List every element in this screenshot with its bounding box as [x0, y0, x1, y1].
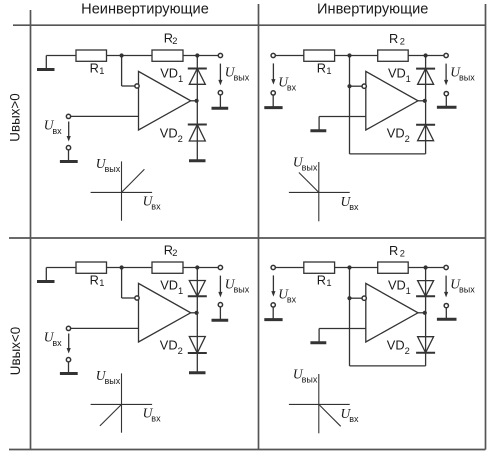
svg-text:вх: вх: [151, 202, 161, 212]
svg-text:вых: вых: [302, 375, 318, 385]
node junction R1/R2/feedback [bottom-right (inverting, Uвых<0)]: [347, 265, 351, 269]
svg-text:Uвых>0: Uвых>0: [8, 93, 23, 141]
output terminal [top-left (noninverting, Uвых>0)]: [218, 53, 222, 57]
wire op-amp output [bottom-right (inverting, Uвых<0)]: [418, 312, 426, 314]
wire op-amp output [bottom-left (noninverting, Uвых<0)]: [191, 312, 198, 314]
svg-text:1: 1: [178, 74, 183, 84]
graph label Uвх [bottom-right (inverting, Uвых<0)]: [341, 406, 359, 424]
svg-text:вых: вых: [234, 73, 250, 83]
output lower terminal [top-left (noninverting, Uвых>0)]: [218, 91, 222, 95]
svg-text:R: R: [389, 243, 398, 258]
input lower terminal [bottom-right (inverting, Uвых<0)]: [271, 303, 275, 307]
input lower terminal [top-left (noninverting, Uвых>0)]: [66, 146, 70, 150]
input lower terminal [top-right (inverting, Uвых>0)]: [271, 91, 275, 95]
svg-text:VD: VD: [160, 126, 178, 141]
svg-text:2: 2: [172, 248, 177, 258]
wire R1-R2 [bottom-right (inverting, Uвых<0)]: [335, 267, 378, 269]
svg-text:вх: вх: [52, 126, 62, 136]
table grid line: middle vertical: [258, 4, 260, 450]
label R1 [top-left (noninverting, Uвых>0)]: [90, 61, 105, 76]
wire R1-R2 [bottom-left (noninverting, Uвых<0)]: [107, 267, 153, 269]
wire diode branch vertical [bottom-right (inverting, Uвых<0)]: [425, 268, 427, 366]
label VD1 [top-right (inverting, Uвых>0)]: [388, 66, 411, 84]
label R1 [top-right (inverting, Uвых>0)]: [317, 61, 332, 76]
label Uвх [top-left (noninverting, Uвых>0)]: [44, 118, 62, 136]
graph label Uвх [top-left (noninverting, Uвых>0)]: [143, 194, 161, 212]
wire noninverting input [top-left (noninverting, Uвых>0)]: [71, 115, 139, 117]
ground (input) [bottom-right (inverting, Uвых<0)]: [264, 307, 282, 320]
node junction R2/diode [top-left (noninverting, Uвых>0)]: [195, 53, 199, 57]
graph horizontal axis [top-right (inverting, Uвых>0)]: [289, 191, 350, 193]
output lower terminal [top-right (inverting, Uвых>0)]: [444, 91, 448, 95]
ground (noninverting input) [bottom-right (inverting, Uвых<0)]: [310, 329, 326, 343]
label Uвых [bottom-left (noninverting, Uвых<0)]: [225, 277, 250, 295]
svg-text:2: 2: [405, 134, 410, 144]
output terminal [bottom-left (noninverting, Uвых<0)]: [218, 265, 222, 269]
wire diode branch vertical [bottom-left (noninverting, Uвых<0)]: [196, 268, 198, 373]
svg-text:Uвых<0: Uвых<0: [8, 327, 23, 375]
output lower terminal [bottom-left (noninverting, Uвых<0)]: [218, 303, 222, 307]
wire to inverting input [top-right (inverting, Uвых>0)]: [350, 85, 362, 87]
wire noninverting input [top-right (inverting, Uвых>0)]: [319, 116, 366, 118]
input terminal Uвх [top-left (noninverting, Uвых>0)]: [66, 114, 70, 118]
arrow Uвх [top-right (inverting, Uвых>0)]: [271, 63, 275, 84]
diode VD2 [top-right (inverting, Uвых>0)]: [416, 125, 435, 141]
svg-text:1: 1: [99, 66, 104, 76]
table outer/inner grid line: left vertical: [30, 10, 32, 450]
resistor R1 [bottom-right (inverting, Uвых<0)]: [304, 262, 335, 273]
wire main top [top-left (noninverting, Uвых>0)]: [46, 55, 76, 57]
svg-text:вых: вых: [105, 164, 121, 174]
arrow Uвых [bottom-right (inverting, Uвых<0)]: [444, 276, 448, 298]
ground (input) [bottom-left (noninverting, Uвых<0)]: [60, 362, 78, 374]
svg-text:вых: вых: [234, 285, 250, 295]
svg-text:2: 2: [400, 37, 405, 47]
svg-text:R: R: [317, 61, 326, 76]
wire to inverting input [bottom-right (inverting, Uвых<0)]: [350, 297, 362, 299]
svg-text:вых: вых: [105, 376, 121, 386]
svg-text:2: 2: [400, 249, 405, 259]
svg-text:1: 1: [326, 66, 331, 76]
svg-text:1: 1: [326, 278, 331, 288]
wire op-amp output [top-left (noninverting, Uвых>0)]: [191, 100, 198, 102]
graph label Uвх [top-right (inverting, Uвых>0)]: [341, 194, 359, 212]
svg-text:2: 2: [178, 134, 183, 144]
op-amp U1 [bottom-left (noninverting, Uвых<0)]: [139, 283, 191, 342]
label Uвых [top-left (noninverting, Uвых>0)]: [225, 65, 250, 83]
diode VD1 [top-right (inverting, Uвых>0)]: [416, 69, 435, 85]
graph transfer curve [top-right (inverting, Uвых>0)]: [299, 173, 319, 193]
label Uвх [top-right (inverting, Uвых>0)]: [278, 74, 296, 92]
wire op-amp output [top-right (inverting, Uвых>0)]: [418, 100, 426, 102]
svg-text:вх: вх: [287, 83, 297, 93]
label R1 [bottom-left (noninverting, Uвых<0)]: [90, 273, 105, 288]
wire diode branch vertical [top-right (inverting, Uвых>0)]: [425, 56, 427, 154]
wire main top [bottom-left (noninverting, Uвых<0)]: [46, 267, 76, 269]
svg-text:вых: вых: [302, 163, 318, 173]
ground (output) [top-left (noninverting, Uвых>0)]: [212, 95, 229, 108]
node junction R1/R2/feedback [top-right (inverting, Uвых>0)]: [347, 53, 351, 57]
arrow Uвых [bottom-left (noninverting, Uвых<0)]: [218, 276, 222, 298]
wire R2-output [top-right (inverting, Uвых>0)]: [408, 55, 444, 57]
input lower terminal [bottom-left (noninverting, Uвых<0)]: [66, 358, 70, 362]
wire R2-output [bottom-right (inverting, Uвых<0)]: [408, 267, 444, 269]
arrow Uвых [top-left (noninverting, Uвых>0)]: [218, 64, 222, 86]
op-amp inverting input bubble [bottom-right (inverting, Uвых<0)]: [362, 296, 366, 300]
svg-text:1: 1: [99, 278, 104, 288]
svg-text:VD: VD: [160, 66, 178, 81]
op-amp U1 [top-right (inverting, Uвых>0)]: [366, 71, 418, 130]
ground (output) [bottom-left (noninverting, Uвых<0)]: [212, 307, 229, 320]
graph transfer curve [bottom-left (noninverting, Uвых<0)]: [100, 404, 122, 426]
diode VD1 [top-left (noninverting, Uвых>0)]: [188, 69, 207, 85]
input terminal Uвх [bottom-right (inverting, Uвых<0)]: [271, 265, 275, 269]
ground (input) [top-right (inverting, Uвых>0)]: [264, 95, 282, 108]
svg-text:VD: VD: [387, 126, 405, 141]
wire feedback bottom [top-right (inverting, Uвых>0)]: [350, 153, 426, 155]
svg-text:2: 2: [405, 346, 410, 356]
wire noninverting input [bottom-left (noninverting, Uвых<0)]: [71, 327, 139, 329]
graph label Uвых [bottom-left (noninverting, Uвых<0)]: [96, 368, 121, 386]
svg-text:R: R: [389, 31, 398, 46]
node inverting input junction [top-right (inverting, Uвых>0)]: [347, 84, 351, 88]
node op-amp output junction [bottom-left (noninverting, Uвых<0)]: [195, 311, 199, 315]
svg-text:VD: VD: [160, 278, 178, 293]
svg-text:VD: VD: [388, 66, 406, 81]
svg-text:VD: VD: [387, 338, 405, 353]
op-amp U1 [bottom-right (inverting, Uвых<0)]: [366, 283, 418, 342]
node op-amp output junction [bottom-right (inverting, Uвых<0)]: [423, 311, 427, 315]
output terminal [top-right (inverting, Uвых>0)]: [444, 53, 448, 57]
ground (output) [bottom-right (inverting, Uвых<0)]: [437, 308, 457, 320]
node op-amp output junction [top-right (inverting, Uвых>0)]: [423, 99, 427, 103]
wire input-R1 [bottom-right (inverting, Uвых<0)]: [275, 267, 303, 269]
op-amp U1 [top-left (noninverting, Uвых>0)]: [139, 71, 191, 130]
svg-text:1: 1: [178, 286, 183, 296]
graph vertical axis [bottom-right (inverting, Uвых<0)]: [318, 374, 320, 433]
label R1 [bottom-right (inverting, Uвых<0)]: [317, 273, 332, 288]
diode VD2 [bottom-right (inverting, Uвых<0)]: [416, 337, 435, 353]
table grid line: middle horizontal: [9, 237, 486, 239]
node junction R1/feedback [top-left (noninverting, Uвых>0)]: [120, 53, 124, 57]
label R2 [top-left (noninverting, Uвых>0)]: [164, 30, 178, 46]
label Uвх [bottom-left (noninverting, Uвых<0)]: [44, 330, 62, 348]
ground (input side) [bottom-left (noninverting, Uвых<0)]: [37, 268, 55, 282]
column header: Инвертирующие: [317, 1, 428, 17]
svg-text:вых: вых: [459, 73, 475, 83]
svg-text:Инвертирующие: Инвертирующие: [317, 1, 428, 17]
node junction R2/diode [bottom-right (inverting, Uвых<0)]: [424, 265, 428, 269]
resistor R2 [top-right (inverting, Uвых>0)]: [378, 50, 409, 61]
column header: Неинвертирующие: [81, 1, 209, 17]
wire input-R1 [top-right (inverting, Uвых>0)]: [275, 55, 303, 57]
op-amp inverting input bubble [top-left (noninverting, Uвых>0)]: [135, 84, 139, 88]
svg-text:R: R: [90, 273, 99, 288]
label VD2 [bottom-left (noninverting, Uвых<0)]: [160, 338, 183, 356]
ground (input side) [top-left (noninverting, Uвых>0)]: [37, 56, 55, 70]
svg-text:R: R: [317, 273, 326, 288]
svg-text:Неинвертирующие: Неинвертирующие: [81, 1, 209, 17]
svg-text:1: 1: [406, 286, 411, 296]
wire diode branch vertical [top-left (noninverting, Uвых>0)]: [196, 56, 198, 161]
graph horizontal axis [top-left (noninverting, Uвых>0)]: [91, 191, 153, 193]
arrow Uвх [bottom-right (inverting, Uвых<0)]: [271, 275, 275, 296]
ground (output) [top-right (inverting, Uвых>0)]: [437, 96, 457, 108]
resistor R2 [bottom-left (noninverting, Uвых<0)]: [152, 262, 183, 273]
label VD1 [bottom-right (inverting, Uвых<0)]: [388, 278, 411, 296]
label VD1 [top-left (noninverting, Uвых>0)]: [160, 66, 183, 84]
arrow Uвх [bottom-left (noninverting, Uвых<0)]: [67, 334, 71, 354]
resistor R2 [bottom-right (inverting, Uвых<0)]: [378, 262, 409, 273]
label Uвых [bottom-right (inverting, Uвых<0)]: [450, 277, 475, 295]
arrow Uвх [top-left (noninverting, Uвых>0)]: [67, 122, 71, 142]
graph label Uвых [top-right (inverting, Uвых>0)]: [293, 155, 318, 173]
svg-text:вх: вх: [349, 202, 359, 212]
op-amp inverting input bubble [top-right (inverting, Uвых>0)]: [362, 84, 366, 88]
diode VD2 [bottom-left (noninverting, Uвых<0)]: [188, 337, 207, 354]
row label Uвых<0: [8, 327, 23, 375]
ground (diode branch end) [top-left (noninverting, Uвых>0)]: [189, 159, 206, 162]
wire R1-R2 [top-left (noninverting, Uвых>0)]: [107, 55, 153, 57]
node inverting input junction [bottom-right (inverting, Uвых<0)]: [347, 296, 351, 300]
resistor R2 [top-left (noninverting, Uвых>0)]: [152, 50, 183, 61]
label VD2 [top-right (inverting, Uвых>0)]: [387, 126, 410, 144]
svg-text:вых: вых: [459, 285, 475, 295]
label R2 [bottom-right (inverting, Uвых<0)]: [389, 243, 405, 259]
wire inverting input [top-left (noninverting, Uвых>0)]: [122, 56, 135, 87]
diode VD1 [bottom-right (inverting, Uвых<0)]: [416, 281, 435, 297]
svg-text:VD: VD: [160, 338, 178, 353]
svg-text:VD: VD: [388, 278, 406, 293]
wire R2-output [bottom-left (noninverting, Uвых<0)]: [183, 267, 218, 269]
wire R1-R2 [top-right (inverting, Uвых>0)]: [335, 55, 378, 57]
wire feedback vertical [top-right (inverting, Uвых>0)]: [349, 56, 351, 154]
graph transfer curve [top-left (noninverting, Uвых>0)]: [122, 169, 145, 192]
output terminal [bottom-right (inverting, Uвых<0)]: [444, 265, 448, 269]
graph label Uвых [top-left (noninverting, Uвых>0)]: [96, 156, 121, 174]
arrow Uвых [top-right (inverting, Uвых>0)]: [444, 64, 448, 86]
input terminal Uвх [bottom-left (noninverting, Uвых<0)]: [66, 326, 70, 330]
output lower terminal [bottom-right (inverting, Uвых<0)]: [444, 303, 448, 307]
ground (noninverting input) [top-right (inverting, Uвых>0)]: [310, 117, 326, 131]
svg-text:вх: вх: [287, 295, 297, 305]
input terminal Uвх [top-right (inverting, Uвых>0)]: [271, 53, 275, 57]
diode VD1 [bottom-left (noninverting, Uвых<0)]: [188, 281, 207, 297]
graph vertical axis [top-left (noninverting, Uвых>0)]: [121, 161, 123, 220]
node op-amp output junction [top-left (noninverting, Uвых>0)]: [195, 99, 199, 103]
svg-text:1: 1: [406, 74, 411, 84]
label VD2 [top-left (noninverting, Uвых>0)]: [160, 126, 183, 144]
label R2 [top-right (inverting, Uвых>0)]: [389, 31, 405, 47]
graph horizontal axis [bottom-left (noninverting, Uвых<0)]: [91, 403, 153, 405]
graph label Uвых [bottom-right (inverting, Uвых<0)]: [293, 367, 318, 385]
svg-text:вх: вх: [52, 338, 62, 348]
wire inverting input [bottom-left (noninverting, Uвых<0)]: [122, 268, 135, 299]
node junction R2/diode [top-right (inverting, Uвых>0)]: [424, 53, 428, 57]
ground (input) [top-left (noninverting, Uвых>0)]: [60, 150, 78, 162]
op-amp inverting input bubble [bottom-left (noninverting, Uвых<0)]: [135, 296, 139, 300]
row label Uвых>0: [8, 93, 23, 141]
resistor R1 [bottom-left (noninverting, Uвых<0)]: [76, 262, 107, 273]
table grid line: top horizontal: [13, 24, 486, 26]
node junction R1/feedback [bottom-left (noninverting, Uвых<0)]: [120, 265, 124, 269]
label VD2 [bottom-right (inverting, Uвых<0)]: [387, 338, 410, 356]
svg-text:вх: вх: [151, 414, 161, 424]
label R2 [bottom-left (noninverting, Uвых<0)]: [164, 242, 178, 257]
wire feedback bottom [bottom-right (inverting, Uвых<0)]: [350, 365, 426, 367]
table grid line: bottom horizontal: [9, 449, 486, 451]
ground (diode branch end) [bottom-left (noninverting, Uвых<0)]: [189, 371, 206, 374]
resistor R1 [top-left (noninverting, Uвых>0)]: [76, 50, 107, 61]
diode VD2 [top-left (noninverting, Uвых>0)]: [188, 125, 207, 142]
table grid line: right vertical: [485, 4, 487, 450]
wire noninverting input [bottom-right (inverting, Uвых<0)]: [319, 328, 366, 330]
svg-text:R: R: [90, 61, 99, 76]
graph vertical axis [top-right (inverting, Uвых>0)]: [318, 162, 320, 221]
wire feedback vertical [bottom-right (inverting, Uвых<0)]: [349, 268, 351, 366]
label Uвых [top-right (inverting, Uвых>0)]: [450, 65, 475, 83]
svg-text:вх: вх: [349, 414, 359, 424]
node junction R2/diode [bottom-left (noninverting, Uвых<0)]: [195, 265, 199, 269]
graph horizontal axis [bottom-right (inverting, Uвых<0)]: [289, 403, 350, 405]
label Uвх [bottom-right (inverting, Uвых<0)]: [278, 286, 296, 304]
graph vertical axis [bottom-left (noninverting, Uвых<0)]: [121, 373, 123, 432]
resistor R1 [top-right (inverting, Uвых>0)]: [304, 50, 335, 61]
label VD1 [bottom-left (noninverting, Uвых<0)]: [160, 278, 183, 296]
wire R2-output [top-left (noninverting, Uвых>0)]: [183, 55, 218, 57]
svg-text:2: 2: [178, 346, 183, 356]
svg-text:2: 2: [172, 36, 177, 46]
graph label Uвх [bottom-left (noninverting, Uвых<0)]: [143, 406, 161, 424]
graph transfer curve [bottom-right (inverting, Uвых<0)]: [319, 404, 341, 426]
